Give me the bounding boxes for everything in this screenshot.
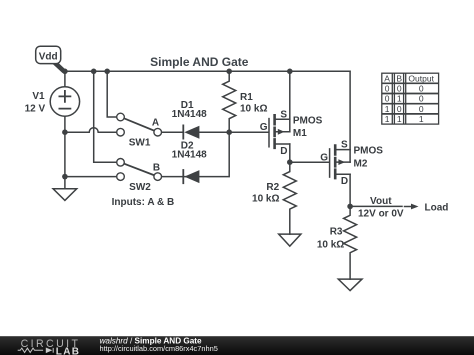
svg-text:M2: M2 [354, 158, 368, 169]
svg-text:1: 1 [419, 114, 424, 124]
svg-text:0: 0 [419, 94, 424, 104]
svg-text:PMOS: PMOS [293, 115, 323, 126]
svg-text:1: 1 [397, 94, 402, 104]
svg-text:http://circuitlab.com/cm86rx4c: http://circuitlab.com/cm86rx4c7nhn5 [100, 344, 218, 353]
svg-text:R1: R1 [240, 92, 253, 103]
svg-text:D: D [280, 146, 287, 157]
svg-text:0: 0 [397, 84, 402, 94]
svg-text:V1: V1 [32, 91, 45, 102]
svg-text:0: 0 [419, 104, 424, 114]
svg-text:A: A [384, 73, 390, 83]
svg-text:M1: M1 [293, 128, 307, 139]
svg-text:10 kΩ: 10 kΩ [252, 194, 279, 205]
svg-text:R2: R2 [266, 182, 279, 193]
svg-text:Inputs: A & B: Inputs: A & B [112, 197, 175, 208]
svg-text:D: D [341, 176, 348, 187]
svg-text:12 V: 12 V [25, 104, 46, 115]
svg-text:10 kΩ: 10 kΩ [317, 239, 344, 250]
svg-text:0: 0 [385, 94, 390, 104]
svg-text:1: 1 [385, 104, 390, 114]
svg-text:B: B [153, 163, 160, 174]
svg-text:Output: Output [408, 73, 434, 83]
svg-text:1: 1 [385, 114, 390, 124]
svg-text:Simple AND Gate: Simple AND Gate [150, 55, 249, 69]
svg-text:PMOS: PMOS [354, 146, 384, 157]
svg-text:B: B [396, 73, 402, 83]
svg-text:S: S [341, 140, 348, 151]
svg-text:0: 0 [397, 104, 402, 114]
svg-text:12V or 0V: 12V or 0V [358, 209, 404, 220]
svg-text:SW1: SW1 [129, 138, 151, 149]
svg-text:LAB: LAB [56, 347, 80, 355]
svg-text:G: G [260, 122, 268, 133]
svg-text:1N4148: 1N4148 [172, 150, 207, 161]
svg-text:R3: R3 [330, 227, 343, 238]
svg-text:Vdd: Vdd [39, 51, 58, 62]
svg-text:1: 1 [397, 114, 402, 124]
svg-text:Vout: Vout [370, 196, 392, 207]
svg-text:0: 0 [385, 84, 390, 94]
svg-text:Load: Load [425, 203, 449, 214]
svg-text:0: 0 [419, 84, 424, 94]
svg-text:10 kΩ: 10 kΩ [240, 103, 267, 114]
svg-text:1N4148: 1N4148 [172, 109, 207, 120]
svg-text:S: S [280, 109, 287, 120]
svg-text:SW2: SW2 [129, 182, 151, 193]
svg-text:G: G [320, 153, 328, 164]
svg-text:A: A [152, 118, 159, 129]
